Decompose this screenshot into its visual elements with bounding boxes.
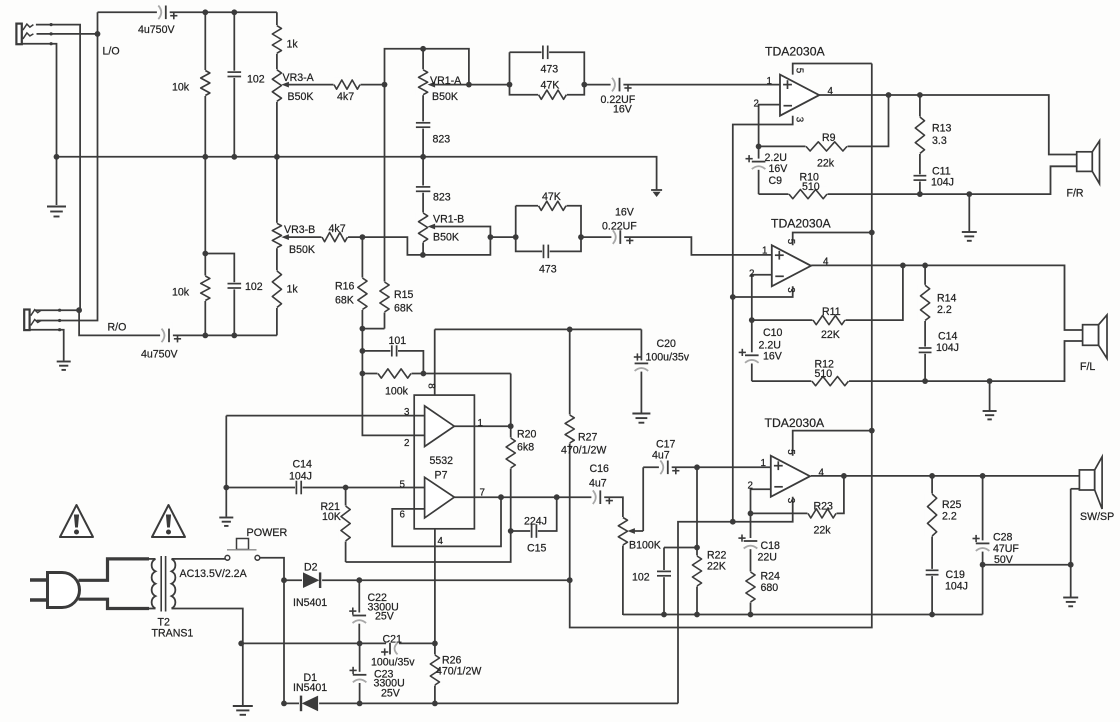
svg-text:C19: C19 <box>946 569 966 581</box>
svg-text:F/R: F/R <box>1067 188 1084 200</box>
svg-text:R24: R24 <box>761 571 781 583</box>
svg-text:473: 473 <box>541 64 559 76</box>
svg-text:R20: R20 <box>517 429 537 441</box>
svg-text:C15: C15 <box>527 543 547 555</box>
svg-text:823: 823 <box>433 134 451 146</box>
svg-text:22k: 22k <box>817 158 835 170</box>
svg-text:16V: 16V <box>763 351 783 363</box>
svg-text:25V: 25V <box>375 611 395 623</box>
svg-text:470/1/2W: 470/1/2W <box>436 666 481 678</box>
svg-text:101: 101 <box>389 335 407 347</box>
svg-text:10k: 10k <box>172 287 190 299</box>
svg-text:C20: C20 <box>657 338 677 350</box>
svg-text:R13: R13 <box>932 123 952 135</box>
svg-text:5532: 5532 <box>430 455 454 467</box>
svg-text:R27: R27 <box>578 432 598 444</box>
svg-text:104J: 104J <box>936 342 959 354</box>
svg-text:102: 102 <box>247 74 265 86</box>
svg-text:2.2: 2.2 <box>937 304 952 316</box>
svg-text:1k: 1k <box>287 284 299 296</box>
svg-text:R23: R23 <box>814 501 834 513</box>
svg-text:473: 473 <box>539 264 557 276</box>
svg-text:4k7: 4k7 <box>329 223 346 235</box>
svg-text:1: 1 <box>761 458 766 469</box>
svg-text:2: 2 <box>748 481 753 492</box>
svg-text:C14: C14 <box>938 331 958 343</box>
svg-text:C10: C10 <box>763 327 783 339</box>
svg-text:3: 3 <box>785 498 796 504</box>
svg-text:4u7: 4u7 <box>589 478 607 490</box>
svg-text:1k: 1k <box>287 39 299 51</box>
svg-text:VR3-B: VR3-B <box>284 224 315 236</box>
svg-text:R/O: R/O <box>108 322 127 334</box>
svg-text:R9: R9 <box>822 132 836 144</box>
svg-text:5: 5 <box>400 480 406 491</box>
svg-text:16V: 16V <box>615 207 635 219</box>
svg-text:R15: R15 <box>394 289 414 301</box>
svg-text:3.3: 3.3 <box>932 135 947 147</box>
svg-text:R11: R11 <box>822 306 841 318</box>
svg-text:4: 4 <box>438 536 444 547</box>
svg-text:2.2: 2.2 <box>942 511 957 523</box>
svg-text:POWER: POWER <box>247 527 288 539</box>
svg-text:C16: C16 <box>590 463 610 475</box>
svg-text:104J: 104J <box>289 471 312 483</box>
svg-text:68K: 68K <box>394 303 413 315</box>
svg-text:47K: 47K <box>541 80 560 92</box>
svg-text:B50K: B50K <box>433 232 459 244</box>
svg-text:C14: C14 <box>293 459 313 471</box>
svg-text:4k7: 4k7 <box>337 91 354 103</box>
svg-text:3: 3 <box>785 287 796 293</box>
svg-text:SW/SP: SW/SP <box>1080 511 1114 523</box>
svg-text:F/L: F/L <box>1080 361 1095 373</box>
svg-text:6k8: 6k8 <box>517 442 534 454</box>
svg-text:680: 680 <box>761 582 779 594</box>
svg-text:VR1-A: VR1-A <box>430 75 462 87</box>
svg-text:224J: 224J <box>524 516 547 528</box>
svg-text:2: 2 <box>754 99 759 110</box>
svg-text:22k: 22k <box>814 525 832 537</box>
svg-text:100k: 100k <box>385 386 409 398</box>
svg-text:7: 7 <box>480 488 485 499</box>
svg-text:P7: P7 <box>435 470 448 482</box>
svg-text:5: 5 <box>794 68 805 74</box>
svg-text:B50K: B50K <box>289 244 315 256</box>
svg-text:100u/35v: 100u/35v <box>371 657 415 669</box>
svg-text:104J: 104J <box>945 581 968 593</box>
svg-text:10K: 10K <box>322 511 341 523</box>
svg-text:16V: 16V <box>769 163 789 175</box>
svg-text:B100K: B100K <box>629 540 661 552</box>
svg-text:TDA2030A: TDA2030A <box>765 45 825 59</box>
svg-text:5: 5 <box>785 239 796 245</box>
svg-text:1: 1 <box>478 418 483 429</box>
svg-text:TDA2030A: TDA2030A <box>765 416 825 430</box>
svg-text:510: 510 <box>815 368 833 380</box>
svg-text:25V: 25V <box>381 688 401 700</box>
svg-text:102: 102 <box>245 281 263 293</box>
svg-text:0.22UF: 0.22UF <box>602 221 637 233</box>
svg-text:4: 4 <box>828 86 834 97</box>
svg-text:3: 3 <box>794 117 805 123</box>
svg-text:R14: R14 <box>937 293 957 305</box>
svg-text:102: 102 <box>632 572 650 584</box>
svg-text:B50K: B50K <box>288 91 314 103</box>
svg-text:1: 1 <box>762 246 767 257</box>
svg-text:22K: 22K <box>821 329 840 341</box>
svg-text:8: 8 <box>426 383 437 389</box>
svg-text:4u750V: 4u750V <box>138 24 175 36</box>
svg-text:510: 510 <box>802 181 820 193</box>
svg-text:22U: 22U <box>758 552 777 564</box>
svg-text:VR3-A: VR3-A <box>283 72 315 84</box>
svg-text:C18: C18 <box>761 540 781 552</box>
svg-text:68K: 68K <box>335 295 354 307</box>
svg-text:4u7: 4u7 <box>652 450 670 462</box>
svg-text:50V: 50V <box>994 554 1014 566</box>
svg-text:47K: 47K <box>542 191 561 203</box>
svg-text:100u/35v: 100u/35v <box>646 352 690 364</box>
svg-text:2: 2 <box>404 438 409 449</box>
svg-text:VR1-B: VR1-B <box>433 214 464 226</box>
svg-text:C9: C9 <box>769 175 783 187</box>
svg-text:4: 4 <box>823 257 829 268</box>
svg-text:B50K: B50K <box>432 91 458 103</box>
svg-text:22K: 22K <box>707 561 726 573</box>
svg-text:1: 1 <box>767 76 772 87</box>
svg-text:3: 3 <box>404 407 410 418</box>
svg-text:R25: R25 <box>942 499 962 511</box>
svg-text:L/O: L/O <box>103 46 120 58</box>
svg-text:AC13.5V/2.2A: AC13.5V/2.2A <box>180 568 248 580</box>
svg-text:C21: C21 <box>383 634 403 646</box>
svg-text:IN5401: IN5401 <box>293 597 327 609</box>
svg-text:R16: R16 <box>335 281 355 293</box>
svg-text:823: 823 <box>433 192 451 204</box>
svg-text:5: 5 <box>785 449 796 455</box>
svg-text:TRANS1: TRANS1 <box>152 628 194 640</box>
svg-text:6: 6 <box>400 510 406 521</box>
svg-text:4u750V: 4u750V <box>141 349 178 361</box>
svg-text:104J: 104J <box>931 177 954 189</box>
svg-text:IN5401: IN5401 <box>293 682 327 694</box>
svg-text:10k: 10k <box>172 82 190 94</box>
svg-text:D2: D2 <box>304 562 318 574</box>
svg-text:4: 4 <box>819 468 825 479</box>
svg-text:TDA2030A: TDA2030A <box>771 217 831 231</box>
svg-text:C28: C28 <box>993 532 1013 544</box>
svg-text:470/1/2W: 470/1/2W <box>561 445 606 457</box>
svg-text:16V: 16V <box>613 104 633 116</box>
svg-text:2: 2 <box>749 269 754 280</box>
